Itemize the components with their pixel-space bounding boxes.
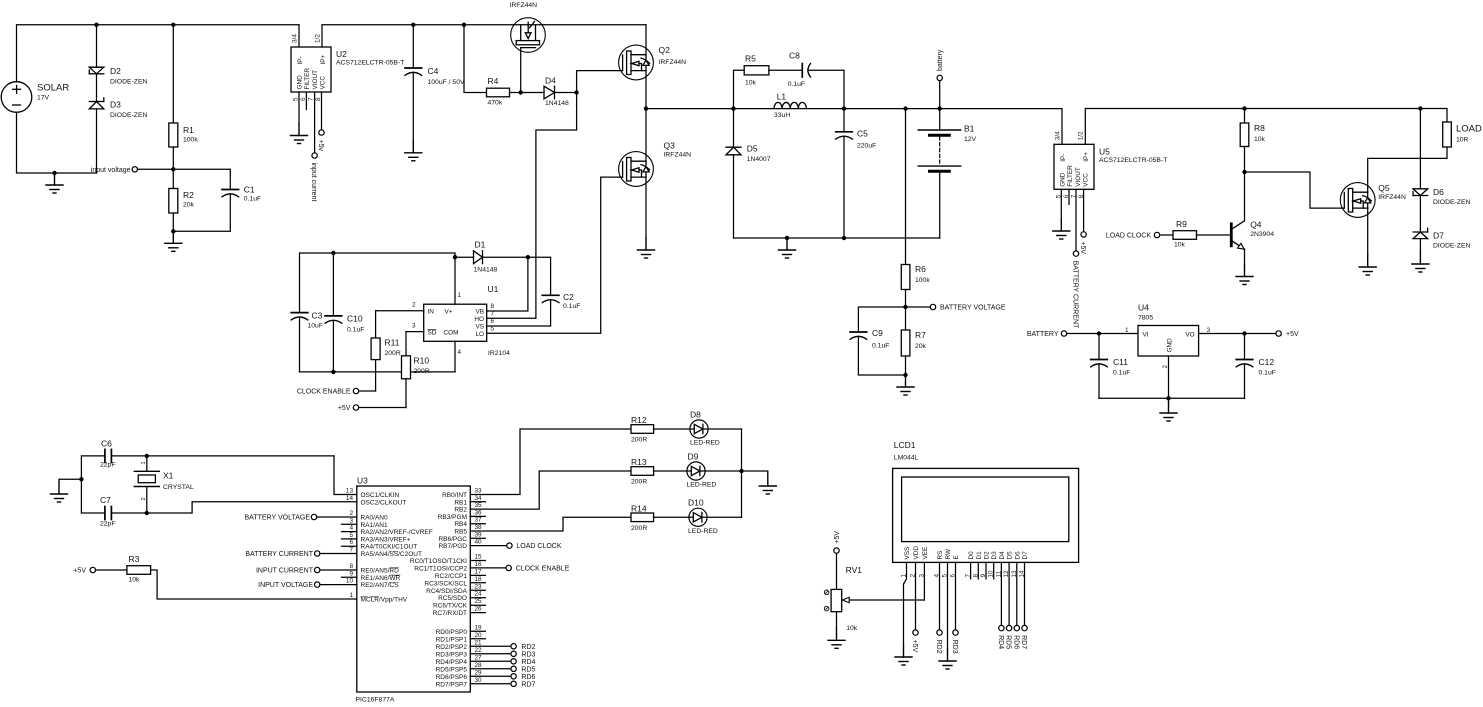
svg-text:220uF: 220uF <box>857 143 876 150</box>
node C4 <box>411 23 415 27</box>
svg-text:100k: 100k <box>915 277 930 284</box>
svg-text:OSC1/CLKIN: OSC1/CLKIN <box>361 492 400 499</box>
terminal battery <box>937 75 942 80</box>
diode D4 1N4148 <box>544 86 555 99</box>
terminal RD6 (LCD) <box>1014 625 1019 630</box>
transistor Q3 IRFZ44N <box>619 152 654 187</box>
wire U1 COM <box>454 341 456 372</box>
wire Q3 gate / LO <box>487 177 623 333</box>
node VB/D1 <box>526 255 530 259</box>
terminal RD3 (LCD) <box>953 630 958 635</box>
svg-text:10k: 10k <box>1254 136 1266 143</box>
wire gate MOSFET gate lead <box>520 48 522 93</box>
pin 27 wire RD4 <box>470 660 511 662</box>
svg-text:input voltage: input voltage <box>91 167 131 174</box>
terminal +5v (U2) <box>319 130 324 135</box>
svg-text:RD2: RD2 <box>521 644 535 651</box>
node D6 top <box>1418 106 1422 110</box>
svg-text:7: 7 <box>308 97 315 101</box>
node bus/R4 <box>462 23 466 27</box>
svg-text:39: 39 <box>475 531 483 538</box>
svg-text:RD2/PSP2: RD2/PSP2 <box>436 644 468 651</box>
wire pin 10 <box>320 584 357 586</box>
wire D6 branch <box>1419 109 1421 189</box>
diode D7 DIODE-ZEN <box>1413 228 1428 238</box>
svg-text:CLOCK ENABLE: CLOCK ENABLE <box>516 566 570 573</box>
crystal X1 <box>146 456 148 471</box>
pin 23 stub <box>470 589 485 591</box>
svg-text:R7: R7 <box>915 330 926 340</box>
svg-text:RA5/AN4/SS/C2OUT: RA5/AN4/SS/C2OUT <box>361 551 422 558</box>
wire U2 GND to ground <box>298 92 300 124</box>
wire R12 to D8 <box>654 428 742 430</box>
svg-text:IR2104: IR2104 <box>488 350 510 357</box>
terminal +5V (RV1) <box>834 548 839 553</box>
wire pin 8 <box>320 569 357 571</box>
svg-text:0.1uF: 0.1uF <box>347 327 364 334</box>
pin 18 stub <box>470 582 485 584</box>
svg-text:+5V: +5V <box>73 568 86 575</box>
wire R2 bottom <box>172 213 174 231</box>
wire D2 stub <box>985 562 987 579</box>
svg-text:BATTERY CURRENT: BATTERY CURRENT <box>1072 261 1079 329</box>
ground (Q3) <box>638 238 655 258</box>
wire D6 <box>1016 562 1018 625</box>
svg-text:SOLAR: SOLAR <box>37 83 69 94</box>
node X1 top <box>145 454 149 458</box>
svg-text:R3: R3 <box>129 554 140 564</box>
svg-text:38: 38 <box>475 524 483 531</box>
svg-text:IP-: IP- <box>1060 154 1067 162</box>
node battery/bus <box>938 106 942 110</box>
wire C1 bottom <box>173 194 230 231</box>
pin 29 wire RD6 <box>470 675 511 677</box>
node battery voltage <box>903 305 907 309</box>
wire pin 7 <box>320 553 357 555</box>
ground (solar loop) <box>52 171 56 175</box>
mcu U3 PIC16F877A <box>357 486 471 692</box>
wire D4 <box>1000 562 1002 625</box>
svg-text:SD: SD <box>428 329 437 336</box>
current sensor U2 ACS712ELCTR-05B-T <box>291 47 331 92</box>
led D10 LED-RED <box>689 508 707 526</box>
wire bottom rail (buck) <box>734 237 940 239</box>
svg-text:V+: V+ <box>445 308 453 315</box>
terminal RD7 <box>511 681 516 686</box>
wire Q2 drain <box>645 25 647 55</box>
svg-text:LM044L: LM044L <box>894 455 919 462</box>
svg-text:RB0/INT: RB0/INT <box>442 492 467 499</box>
svg-text:20: 20 <box>475 632 483 639</box>
svg-text:10k: 10k <box>745 80 757 87</box>
svg-text:D5: D5 <box>1007 551 1014 560</box>
wire R10 top <box>405 332 407 356</box>
wire R11 top <box>375 311 377 338</box>
svg-text:VS: VS <box>475 323 484 330</box>
svg-text:200R: 200R <box>631 525 647 532</box>
wire C5 bottom <box>843 136 845 238</box>
terminal +5V (U4 out) <box>1276 331 1281 336</box>
svg-text:DIODE-ZEN: DIODE-ZEN <box>1433 243 1470 250</box>
svg-text:10: 10 <box>346 578 354 585</box>
svg-text:RD6: RD6 <box>1012 635 1019 649</box>
wire U4 GND <box>1168 356 1170 398</box>
transistor Q5 IRFZ44N <box>1340 183 1375 218</box>
resistor R4 470k <box>487 88 510 97</box>
wire C3 bottom <box>299 317 301 372</box>
svg-text:IRFZ44N: IRFZ44N <box>664 152 692 159</box>
svg-text:+5V: +5V <box>1286 331 1299 338</box>
wire D1 stub <box>977 562 979 579</box>
pin 21 wire RD2 <box>470 645 511 647</box>
wire R10 bottom <box>405 379 407 408</box>
wire R9 left <box>1160 234 1173 236</box>
svg-text:6: 6 <box>491 318 495 325</box>
wire OSC1 top rail / C6 <box>81 456 105 513</box>
svg-text:R5: R5 <box>745 54 756 64</box>
svg-text:1/2: 1/2 <box>1078 131 1085 140</box>
terminal +5V (U1) <box>353 405 358 410</box>
capacitor C4 100uF/50V <box>405 67 422 69</box>
svg-text:U5: U5 <box>1099 146 1110 156</box>
transistor Q2 IRFZ44N <box>619 45 654 80</box>
svg-text:18: 18 <box>475 576 483 583</box>
svg-text:ACS712ELCTR-05B-T: ACS712ELCTR-05B-T <box>1099 157 1167 164</box>
pin 5 stub <box>342 538 357 540</box>
wire BATTERY to VI <box>1067 333 1138 335</box>
svg-text:IP-: IP- <box>297 56 304 64</box>
wiper arrow RV1 <box>848 599 924 601</box>
svg-text:C2: C2 <box>563 292 574 302</box>
svg-text:D7: D7 <box>1433 231 1444 241</box>
svg-text:36: 36 <box>475 509 483 516</box>
svg-text:100k: 100k <box>183 136 198 143</box>
svg-text:VDD: VDD <box>913 546 920 560</box>
wire R8 top <box>1244 109 1246 124</box>
resistor R12 200R <box>631 425 654 434</box>
wire D1 cathode to C2 <box>483 257 551 295</box>
svg-text:RC0/T1OSO/T1CKI: RC0/T1OSO/T1CKI <box>410 558 467 565</box>
svg-text:RB4: RB4 <box>454 521 467 528</box>
wire C4 top <box>412 25 414 68</box>
wire Q5 source <box>1367 208 1369 255</box>
terminal RD6 <box>511 674 516 679</box>
svg-text:LED-RED: LED-RED <box>688 528 718 535</box>
wire R5 branch up <box>734 70 745 108</box>
svg-text:19: 19 <box>475 624 483 631</box>
wire D3 stub <box>993 562 995 579</box>
svg-text:22: 22 <box>475 647 483 654</box>
svg-text:+5V: +5V <box>338 405 351 412</box>
svg-text:IP+: IP+ <box>320 54 327 64</box>
node R6 top <box>903 106 907 110</box>
terminal BATTERY CURRENT <box>315 551 320 556</box>
svg-text:D0: D0 <box>968 551 975 560</box>
svg-text:VCC: VCC <box>320 76 327 90</box>
terminal CLOCK ENABLE (U3) <box>506 565 511 570</box>
svg-text:10uF: 10uF <box>308 323 324 330</box>
svg-text:10k: 10k <box>1174 242 1186 249</box>
svg-text:33: 33 <box>475 488 483 495</box>
svg-text:COM: COM <box>444 329 459 336</box>
svg-text:200R: 200R <box>414 368 430 375</box>
svg-text:1/2: 1/2 <box>315 34 322 43</box>
svg-text:0.1uF: 0.1uF <box>1113 370 1130 377</box>
svg-text:IRFZ44N: IRFZ44N <box>659 59 687 66</box>
svg-text:10k: 10k <box>846 625 858 632</box>
svg-text:VIOUT: VIOUT <box>1075 167 1082 187</box>
svg-text:RD3: RD3 <box>951 640 958 654</box>
wire LED column <box>741 429 743 517</box>
wire R4 to D4 <box>510 92 545 94</box>
svg-text:D2: D2 <box>110 66 121 76</box>
wire HO to U1 <box>487 93 577 319</box>
resistor R8 10k <box>1240 123 1249 147</box>
svg-text:RB1: RB1 <box>454 499 467 506</box>
svg-text:13: 13 <box>346 488 354 495</box>
svg-text:12V: 12V <box>964 136 977 143</box>
svg-text:RD5/PSP5: RD5/PSP5 <box>436 666 468 673</box>
node bus/R1 <box>171 23 175 27</box>
wire Q2 source to mid bus <box>645 71 647 109</box>
svg-text:RA3/AN3/VREF+: RA3/AN3/VREF+ <box>361 536 411 543</box>
ground (D7) <box>1412 252 1429 272</box>
wire D7 to ground <box>1419 239 1421 252</box>
pin 19 stub <box>470 630 485 632</box>
svg-text:Q3: Q3 <box>664 141 676 151</box>
wire C11 bottom <box>1098 364 1100 398</box>
wire R3 to MCLR <box>151 570 357 599</box>
wire Q3 source <box>645 177 647 238</box>
svg-text:RE0/AN5/RD: RE0/AN5/RD <box>361 568 400 575</box>
wire top bus right (U2 IP+ to Q2 drain) <box>322 25 646 47</box>
svg-text:0.1uF: 0.1uF <box>244 196 261 203</box>
svg-text:RC1/T1OSI/CCP2: RC1/T1OSI/CCP2 <box>414 565 467 572</box>
transistor Q4 2N3904 <box>1231 221 1244 250</box>
svg-text:RC7/RX/DT: RC7/RX/DT <box>433 610 467 617</box>
svg-text:R2: R2 <box>183 190 194 200</box>
svg-text:GND: GND <box>297 75 304 90</box>
wire D2-D3 <box>96 74 98 102</box>
wire C6 to OSC1 <box>111 455 334 457</box>
terminal RD4 (LCD) <box>999 625 1004 630</box>
wire pin 2 <box>317 516 357 518</box>
ground (Q4) <box>1236 265 1253 285</box>
wire D4 cathode <box>555 92 577 94</box>
svg-text:28: 28 <box>475 662 483 669</box>
wire C9 top <box>858 307 905 332</box>
pin 17 stub <box>470 574 485 576</box>
svg-text:C5: C5 <box>857 129 868 139</box>
svg-text:1N4148: 1N4148 <box>545 100 569 107</box>
wire R7 bottom <box>905 356 907 375</box>
pin 24 stub <box>470 597 485 599</box>
pin 26 stub <box>470 612 485 614</box>
wire D5 to rail <box>733 155 735 238</box>
gate driver U1 IR2104 <box>424 304 487 341</box>
svg-text:3: 3 <box>1207 327 1211 334</box>
svg-text:24: 24 <box>475 591 483 598</box>
svg-text:input current: input current <box>310 163 317 202</box>
svg-text:Q5: Q5 <box>1378 183 1390 193</box>
svg-text:C7: C7 <box>100 495 111 505</box>
svg-text:RV1: RV1 <box>846 565 863 575</box>
wire C12 bottom <box>1244 364 1246 398</box>
svg-text:R11: R11 <box>385 338 400 348</box>
svg-text:ACS712ELCTR-05B-T: ACS712ELCTR-05B-T <box>336 60 404 67</box>
svg-text:0.1uF: 0.1uF <box>563 303 580 310</box>
resistor R6 100k <box>901 265 910 290</box>
svg-text:D6: D6 <box>1014 551 1021 560</box>
svg-text:C4: C4 <box>428 66 439 76</box>
svg-text:DIODE-ZEN: DIODE-ZEN <box>110 112 147 119</box>
wire D6 to D7 <box>1419 196 1421 233</box>
svg-text:0.1uF: 0.1uF <box>788 81 805 88</box>
svg-text:470k: 470k <box>488 100 503 107</box>
pin 37 stub <box>470 523 485 525</box>
wire U5 VIOUT <box>1075 189 1077 251</box>
svg-text:VIOUT: VIOUT <box>312 70 319 90</box>
wire C10 bottom <box>332 320 334 372</box>
capacitor C5 220uF <box>843 109 845 132</box>
svg-text:D1: D1 <box>475 240 486 250</box>
ground (LCD VSS) <box>895 645 912 665</box>
wire C3 top rail <box>300 253 456 313</box>
node X1 bottom <box>145 511 149 515</box>
svg-text:200R: 200R <box>631 479 647 486</box>
terminal +5V (U5) <box>1081 232 1086 237</box>
svg-text:1: 1 <box>458 292 462 299</box>
svg-text:HO: HO <box>474 316 484 323</box>
svg-text:RA2/AN2/VREF-/CVREF: RA2/AN2/VREF-/CVREF <box>361 529 433 536</box>
svg-text:+5V: +5V <box>1079 241 1086 254</box>
wire Q4 emitter to ground <box>1244 249 1246 264</box>
svg-text:C11: C11 <box>1113 357 1128 367</box>
node U4 ground <box>1166 396 1170 400</box>
resistor R7 20k <box>905 307 907 330</box>
wire RS <box>939 562 941 630</box>
node R8 top <box>1242 106 1246 110</box>
svg-text:RE1/AN6/WR: RE1/AN6/WR <box>361 575 401 582</box>
svg-text:RC5/SDO: RC5/SDO <box>438 595 467 602</box>
pin 4 stub <box>342 531 357 533</box>
wire VO to +5V <box>1199 333 1276 335</box>
svg-text:RD6: RD6 <box>521 674 535 681</box>
wire +5V to R3 <box>96 569 127 571</box>
wire U2 FILTER stub <box>305 92 307 110</box>
node R2/C1 bottom <box>171 229 175 233</box>
svg-text:R8: R8 <box>1254 123 1265 133</box>
svg-text:D7: D7 <box>1022 551 1029 560</box>
svg-text:RB3/PGM: RB3/PGM <box>438 514 467 521</box>
diode D6 DIODE-ZEN <box>1413 189 1428 196</box>
wire U5 FILTER stub <box>1068 189 1070 204</box>
svg-text:R12: R12 <box>631 415 647 425</box>
current sensor U5 ACS712ELCTR-05B-T <box>1054 144 1094 189</box>
capacitor C9 0.1uF <box>850 331 867 333</box>
wire Q5 drain to LOAD <box>1368 147 1447 192</box>
wire Q5 gate branch <box>1245 172 1345 208</box>
svg-text:LED-RED: LED-RED <box>687 482 717 489</box>
pin 16 wire CLOCK ENABLE <box>470 567 506 569</box>
wire battery terminal <box>939 81 941 109</box>
wire D3 to rail <box>96 109 98 173</box>
wire U5 VCC <box>1083 189 1085 231</box>
svg-text:D3: D3 <box>110 100 121 110</box>
svg-text:6: 6 <box>349 539 353 546</box>
svg-text:LOAD CLOCK: LOAD CLOCK <box>516 543 561 550</box>
diode D5 1N4007 <box>733 109 735 148</box>
svg-text:Q2: Q2 <box>659 45 671 55</box>
wire mid bus <box>646 109 1062 145</box>
node LED/ground <box>739 469 743 473</box>
wire R8 bottom to Q4 collector <box>1244 147 1246 221</box>
wire U4 bottom rail <box>1099 397 1245 399</box>
svg-text:100uF / 50V: 100uF / 50V <box>428 79 465 86</box>
led D8 LED-RED <box>690 420 708 438</box>
wire U1 IN <box>376 310 424 312</box>
svg-text:3/4: 3/4 <box>1055 131 1062 140</box>
node D4/gate <box>574 90 578 94</box>
svg-text:D1: D1 <box>976 551 983 560</box>
svg-text:VB: VB <box>475 309 484 316</box>
wire C9 bottom <box>858 337 905 376</box>
terminal RD5 (LCD) <box>1006 625 1011 630</box>
svg-text:RD5: RD5 <box>521 666 535 673</box>
svg-text:RC2/CCP1: RC2/CCP1 <box>435 573 468 580</box>
svg-text:RC4/SDI/SDA: RC4/SDI/SDA <box>426 588 467 595</box>
wire D2 branch <box>96 25 98 67</box>
svg-text:MCLR/Vpp/THV: MCLR/Vpp/THV <box>361 597 408 604</box>
wire RW to ground <box>947 562 949 649</box>
diode D2 DIODE-ZEN <box>89 67 104 74</box>
capacitor C1 0.1uF <box>222 189 239 191</box>
svg-text:IRFZ44N: IRFZ44N <box>1378 194 1406 201</box>
svg-text:7805: 7805 <box>1138 315 1153 322</box>
capacitor C11 0.1uF <box>1098 334 1100 360</box>
led D9 LED-RED <box>687 462 705 480</box>
terminal CLOCK ENABLE <box>353 388 358 393</box>
terminal +5V (R3) <box>90 567 95 572</box>
wire X1 bottom stem <box>146 487 148 514</box>
pin 28 wire RD5 <box>470 668 511 670</box>
svg-text:10k: 10k <box>129 577 141 584</box>
ground (U2) <box>291 124 308 144</box>
wire RV1 top <box>836 553 838 589</box>
svg-text:0.1uF: 0.1uF <box>872 343 889 350</box>
svg-text:RC6/TX/CK: RC6/TX/CK <box>433 603 468 610</box>
ground (LCD RW) <box>939 649 956 669</box>
pin 15 stub <box>470 560 485 562</box>
node R8/gate branch <box>1242 170 1246 174</box>
svg-text:FILTER: FILTER <box>1067 165 1074 187</box>
svg-text:RB5: RB5 <box>454 529 467 536</box>
wire C8 right <box>809 70 844 108</box>
terminal BATTERY CURRENT (U5) <box>1073 251 1078 256</box>
capacitor C7 22pF <box>104 507 106 520</box>
svg-text:RA0/AN0: RA0/AN0 <box>361 515 388 522</box>
battery B1 12V <box>939 109 941 130</box>
svg-text:R14: R14 <box>631 503 647 513</box>
resistor R11 200R <box>371 338 380 360</box>
svg-text:14: 14 <box>346 495 354 502</box>
svg-text:BATTERY VOLTAGE: BATTERY VOLTAGE <box>940 305 1006 312</box>
svg-text:GND: GND <box>1060 172 1067 187</box>
ground (LEDs) <box>759 474 776 494</box>
capacitor C2 0.1uF <box>542 294 559 296</box>
ground (R7) <box>897 375 914 395</box>
svg-text:U1: U1 <box>488 284 499 294</box>
